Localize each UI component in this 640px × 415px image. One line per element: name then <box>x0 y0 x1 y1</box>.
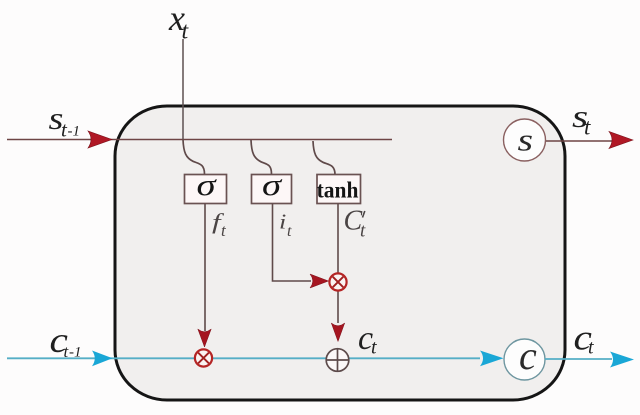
svg-text:-1: -1 <box>69 345 82 361</box>
svg-text:i: i <box>279 211 286 234</box>
svg-text:c: c <box>519 333 537 378</box>
svg-text:t: t <box>287 223 292 240</box>
svg-text:t: t <box>588 337 594 359</box>
svg-text:tanh: tanh <box>317 177 359 203</box>
svg-text:-1: -1 <box>68 124 81 140</box>
svg-text:t: t <box>360 221 366 242</box>
svg-text:s: s <box>518 122 534 157</box>
svg-text:t: t <box>584 115 591 140</box>
svg-text:t: t <box>371 337 377 359</box>
svg-text:σ: σ <box>196 168 217 202</box>
svg-text:σ: σ <box>262 168 283 202</box>
